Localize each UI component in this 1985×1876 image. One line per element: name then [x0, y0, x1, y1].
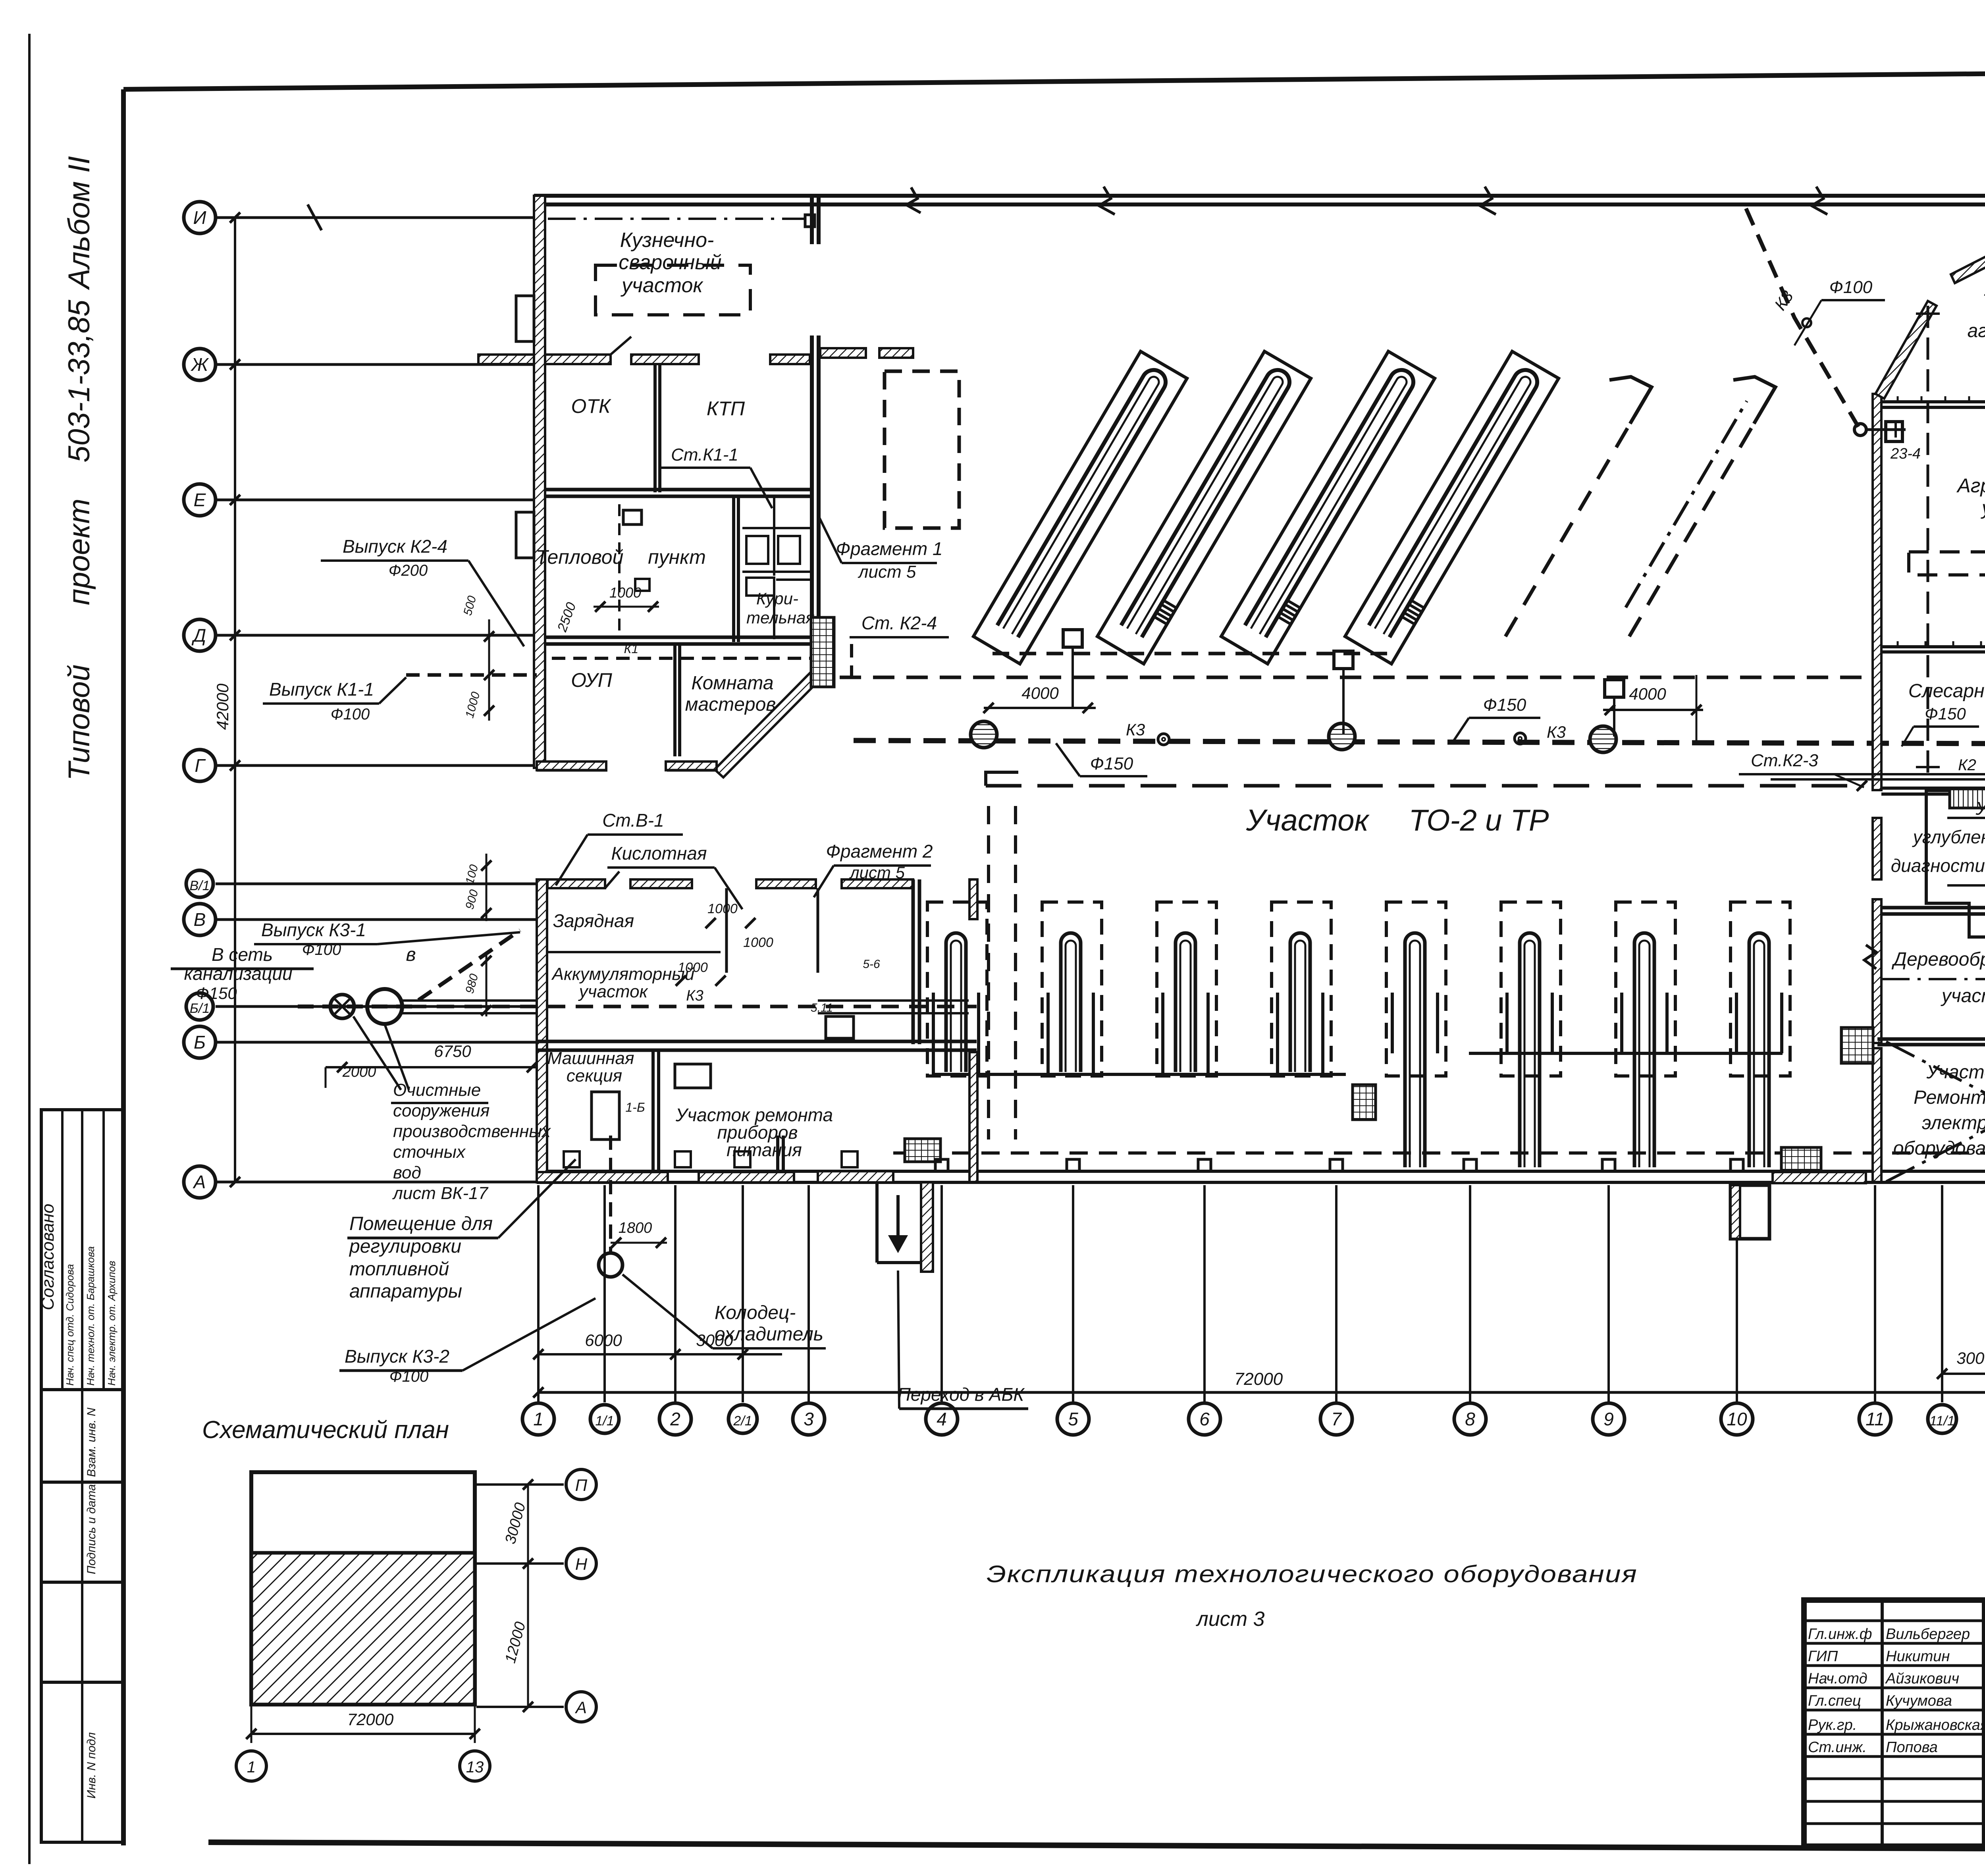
svg-text:1000: 1000	[743, 935, 773, 950]
svg-text:6: 6	[1199, 1409, 1210, 1429]
dashed parking strip 1	[0, 0, 2, 2]
K1 dashed pipe inside	[552, 657, 814, 660]
left block right wall	[810, 196, 814, 244]
wall axis Zh hatch seg 1	[545, 355, 611, 364]
top exterior wall	[534, 194, 1985, 198]
svg-text:Кури-: Кури-	[756, 589, 798, 608]
svg-text:72000: 72000	[1234, 1369, 1283, 1389]
svg-text:диагностики: диагностики	[1891, 855, 1985, 876]
svg-text:мастеров: мастеров	[685, 694, 776, 715]
svg-text:5-6: 5-6	[863, 958, 880, 971]
svg-text:лист 5: лист 5	[849, 863, 905, 882]
bottom wall hatch seg 1	[818, 1171, 893, 1182]
svg-text:регулировки: регулировки	[349, 1236, 461, 1257]
vertical dashed connector K2-4	[850, 644, 853, 677]
svg-text:Ст.инж.: Ст.инж.	[1808, 1739, 1867, 1756]
wall axis B lower	[537, 1040, 977, 1043]
grid line 4	[940, 1185, 943, 1402]
svg-text:Нач. электр. от. Архипов: Нач. электр. от. Архипов	[106, 1261, 118, 1386]
svg-text:К2: К2	[1958, 756, 1976, 774]
grid line 9	[1607, 1185, 1610, 1402]
derevo centerline	[1882, 978, 1985, 980]
svg-text:П: П	[575, 1476, 588, 1494]
K3 well 3	[1590, 726, 1616, 752]
svg-text:лист 3: лист 3	[1196, 1608, 1265, 1631]
diagonal ramp 3 stair	[1279, 601, 1300, 624]
pit bay dashed rect 4	[1272, 902, 1331, 1076]
svg-text:Ф100: Ф100	[302, 941, 341, 958]
bottom wall tick square at grid 6	[1198, 1159, 1211, 1171]
diagonal ramp 2	[1121, 370, 1289, 637]
axis line Б	[216, 1041, 537, 1044]
lower block left wall	[537, 879, 547, 1182]
grid bubble 5	[1057, 1403, 1089, 1435]
svg-text:Г: Г	[195, 755, 206, 776]
dim 72000 line	[538, 1391, 1985, 1394]
dashed equipment rect upper	[885, 371, 959, 528]
grid bubble 7	[1320, 1403, 1352, 1435]
grid line 1	[537, 1185, 540, 1402]
K3 main dashed pipe	[854, 740, 1985, 744]
svg-text:3000: 3000	[1956, 1349, 1985, 1367]
elektro cross 2	[1886, 1042, 1985, 1182]
axis bubble Б	[184, 1026, 216, 1058]
svg-text:ГИП: ГИП	[1808, 1648, 1838, 1665]
svg-text:Колодец-: Колодец-	[715, 1302, 796, 1323]
pit 6 solid surround	[1507, 993, 1552, 1053]
svg-text:А: А	[193, 1172, 206, 1192]
svg-text:Ремонта: Ремонта	[1914, 1087, 1985, 1108]
svg-text:2/1: 2/1	[733, 1413, 752, 1429]
axis line Е	[216, 499, 537, 501]
bottom wall hatch seg 2	[1773, 1172, 1866, 1183]
sanitary block inner walls	[773, 496, 775, 576]
svg-text:23-4: 23-4	[1890, 445, 1921, 462]
right stub below wall	[1731, 1185, 1769, 1239]
bottom wall tick square at grid 5	[1067, 1159, 1079, 1171]
svg-text:сооружения: сооружения	[393, 1101, 490, 1120]
grid line 10	[1736, 1185, 1738, 1402]
pit 3 solid surround	[1163, 993, 1208, 1074]
svg-text:Б/1: Б/1	[190, 1001, 210, 1016]
frame top edge	[123, 68, 1985, 89]
grid bubble 2	[659, 1403, 691, 1435]
svg-text:Агрегатный: Агрегатный	[1956, 474, 1985, 497]
svg-text:ТО-2 и ТР: ТО-2 и ТР	[1409, 804, 1549, 837]
schematic dim vline	[527, 1485, 529, 1707]
kolodec dashed riser	[609, 1136, 612, 1253]
svg-text:Ст.В-1: Ст.В-1	[602, 810, 664, 831]
grid line 2/1	[742, 1185, 744, 1402]
pit 2	[1061, 933, 1081, 1072]
dim 42000 vertical line	[234, 218, 236, 1182]
schematic bubble 1	[236, 1751, 266, 1781]
lower block equipment 2	[592, 1092, 619, 1139]
svg-text:4000: 4000	[1629, 684, 1666, 703]
dash-dot parking strip	[1626, 401, 1747, 607]
axis bubble Д	[184, 619, 216, 651]
pit bay dashed rect 3	[1157, 902, 1216, 1076]
frame bottom edge	[208, 1842, 1985, 1851]
margin row inv podl	[41, 1681, 123, 1684]
svg-text:Фрагмент 2: Фрагмент 2	[826, 841, 933, 862]
pit bay dashed rect 6	[1501, 902, 1561, 1076]
svg-text:3: 3	[804, 1409, 814, 1429]
svg-text:Выпуск К3-2: Выпуск К3-2	[345, 1346, 449, 1367]
derevo left wall	[1873, 899, 1881, 1043]
svg-text:Фрагмент 1: Фрагмент 1	[836, 538, 942, 559]
dim 6000-3000 left line	[538, 1353, 782, 1355]
pit 7	[1634, 933, 1654, 1167]
lower block equipment 3	[826, 1016, 854, 1038]
grid line 3	[807, 1185, 810, 1402]
svg-text:охладитель: охладитель	[715, 1324, 823, 1345]
grid bubble 11/1	[1928, 1405, 1956, 1433]
derevo elektro wall	[1877, 1037, 1985, 1041]
svg-text:Выпуск К3-1: Выпуск К3-1	[261, 920, 366, 940]
svg-text:Ст.К2-3: Ст.К2-3	[1751, 751, 1818, 770]
pit bay dashed rect 2	[1042, 902, 1102, 1076]
derevo top wall	[1877, 906, 1985, 910]
axis I dash-dot line	[548, 218, 805, 220]
svg-text:Зарядная: Зарядная	[553, 910, 634, 931]
svg-text:Ст.К1-1: Ст.К1-1	[671, 445, 738, 465]
pom regulirovki right wall	[651, 1050, 655, 1182]
axis bubble А	[184, 1166, 216, 1198]
derevo break left	[1864, 945, 1876, 969]
comb link line right group	[1469, 1052, 1783, 1055]
svg-text:аппаратуры: аппаратуры	[349, 1281, 462, 1302]
schematic bottom dim	[251, 1704, 252, 1743]
title block left part hlines	[1804, 1620, 1985, 1622]
svg-text:Машинная: Машинная	[547, 1049, 634, 1068]
grid line 6	[1203, 1185, 1206, 1402]
svg-text:Ст. К2-4: Ст. К2-4	[861, 613, 937, 633]
bottom wall tick square at grid 10	[1731, 1159, 1743, 1171]
axis bubble В/1	[186, 870, 213, 897]
svg-text:1/1: 1/1	[595, 1413, 614, 1429]
teplovoi dashed riser	[618, 504, 621, 635]
K3 inlet node	[1802, 318, 1811, 327]
diagonal ramp 4	[1369, 370, 1537, 637]
svg-text:Ф150: Ф150	[1483, 695, 1526, 715]
svg-text:сварочный: сварочный	[619, 251, 721, 274]
svg-text:Аккумуляторный: Аккумуляторный	[551, 964, 695, 984]
wall axis Zh hatch seg 3	[770, 355, 810, 364]
svg-text:Взам. инв. N: Взам. инв. N	[85, 1407, 98, 1477]
pit bay dashed rect 8	[1731, 902, 1790, 1076]
soglasovano row line	[41, 1388, 123, 1391]
axis line И	[216, 216, 537, 219]
elektro grate left	[1841, 1028, 1873, 1063]
wall axis E	[545, 488, 812, 492]
chamfer wall moiki	[1875, 301, 1937, 399]
svg-text:6750: 6750	[434, 1042, 471, 1060]
schematic hatch band	[251, 1553, 475, 1704]
grid bubble 4	[926, 1403, 958, 1435]
svg-text:Ф150: Ф150	[1925, 704, 1966, 723]
svg-text:Гл.спец: Гл.спец	[1808, 1693, 1861, 1709]
svg-text:13: 13	[466, 1758, 484, 1776]
wall axis Zh hatch seg 4 right of block	[820, 348, 866, 358]
svg-text:1: 1	[533, 1409, 543, 1429]
svg-text:Участок: Участок	[1926, 1062, 1985, 1083]
top wall break mark 1	[1099, 187, 1115, 214]
svg-text:5: 5	[1068, 1409, 1078, 1429]
perekhod stub walls	[921, 1182, 933, 1272]
svg-text:Экспликация технологического: Экспликация технологического оборудовани…	[987, 1561, 1638, 1587]
svg-text:К3: К3	[686, 987, 703, 1004]
svg-text:2000: 2000	[342, 1064, 376, 1080]
comb grate 1	[905, 1139, 940, 1162]
title block left part verticals	[1881, 1600, 1884, 1846]
svg-text:Попова: Попова	[1886, 1739, 1938, 1756]
K3 inlet elbow node	[1854, 424, 1866, 436]
wall axis G hatch seg 1	[537, 762, 606, 770]
zaryadnaya door arc	[605, 871, 619, 888]
svg-text:Вильбергер: Вильбергер	[1886, 1626, 1970, 1643]
lower block right wall	[969, 1052, 977, 1182]
margin row podpis	[41, 1581, 123, 1584]
grid bubble 2/1	[728, 1405, 757, 1433]
svg-text:в: в	[406, 944, 416, 965]
KTP right wall lower	[810, 498, 814, 647]
grid bubble 6	[1189, 1403, 1220, 1435]
grid bubble 8	[1454, 1403, 1486, 1435]
chamfer wall moiki upper	[1951, 231, 1985, 283]
diagonal ramp 1	[997, 370, 1166, 637]
diagonal ramp 4 stair	[1403, 601, 1424, 624]
pit 1	[946, 933, 966, 1072]
svg-text:42000: 42000	[213, 683, 232, 730]
svg-text:питания: питания	[727, 1139, 802, 1160]
svg-text:сточных: сточных	[393, 1142, 466, 1162]
axis line А	[216, 1181, 537, 1184]
pit bay dashed rect 1	[927, 902, 987, 1076]
comb link line left group	[979, 1073, 1346, 1076]
lower block equipment 1	[675, 1064, 711, 1088]
grid line 11	[1874, 1185, 1876, 1402]
svg-text:Гл.инж.ф: Гл.инж.ф	[1808, 1626, 1872, 1643]
diagnostika inner rect	[1947, 818, 1985, 885]
bottom wall tick square at grid 4	[935, 1159, 948, 1171]
svg-text:72000: 72000	[347, 1710, 394, 1729]
axis bubble Е	[184, 484, 216, 516]
elektro cross 1	[1886, 1042, 1985, 1182]
schematic rect	[251, 1472, 475, 1704]
top wall break mark 2	[1812, 187, 1827, 214]
grid bubble 11	[1859, 1403, 1891, 1435]
margin row vzam inv	[41, 1481, 123, 1484]
ochistnye tank circle	[367, 989, 402, 1024]
svg-text:11/1: 11/1	[1929, 1413, 1955, 1429]
pit 8	[1749, 933, 1769, 1167]
wall axis A lower hatch	[537, 1172, 668, 1182]
comb grate 3	[1781, 1147, 1821, 1170]
svg-text:К1: К1	[624, 642, 639, 656]
pit 3	[1176, 933, 1195, 1072]
ochistnye pump circle	[330, 995, 354, 1018]
svg-text:тельная: тельная	[746, 608, 815, 627]
pipe dashed line B	[840, 676, 1862, 679]
left wall pilaster 1	[516, 296, 534, 341]
grid bubble 1	[522, 1403, 554, 1435]
agregatny equipment dashed band	[1909, 552, 1985, 575]
svg-text:Тепловой: Тепловой	[536, 546, 624, 568]
mash sekcia right wall	[776, 1136, 779, 1182]
pit 7 solid surround	[1622, 993, 1667, 1053]
svg-text:Помещение для: Помещение для	[349, 1213, 493, 1234]
dim 3000-6000 right line	[1942, 1373, 1985, 1375]
svg-text:КТП: КТП	[707, 397, 745, 420]
svg-text:ОТК: ОТК	[571, 395, 611, 417]
svg-text:Переход в АБК: Переход в АБК	[898, 1384, 1025, 1405]
svg-text:агрегатов: агрегатов	[1968, 320, 1985, 341]
bottom wall tick square at grid 9	[1602, 1159, 1615, 1171]
svg-text:производственных: производственных	[393, 1122, 551, 1141]
svg-text:1000: 1000	[609, 584, 641, 601]
wall axis G hatch seg 2	[666, 762, 717, 770]
bottom wall tick square at grid 7	[1330, 1159, 1343, 1171]
grid bubble 9	[1593, 1403, 1625, 1435]
axis bubble Ж	[184, 349, 216, 380]
svg-text:9: 9	[1603, 1409, 1614, 1429]
svg-text:Ф200: Ф200	[389, 562, 428, 579]
svg-text:1: 1	[247, 1758, 256, 1776]
svg-text:4: 4	[937, 1409, 947, 1429]
K2 solid pipe	[1771, 773, 1985, 775]
zaryadnaya bench line	[547, 951, 721, 953]
svg-text:Ф150: Ф150	[1090, 754, 1133, 773]
svg-text:8: 8	[1465, 1409, 1475, 1429]
fragment2 dashed vline 1	[987, 806, 990, 1139]
svg-text:участок: участок	[1941, 985, 1985, 1006]
right block left wall lower	[1873, 818, 1881, 879]
svg-text:Ф100: Ф100	[389, 1368, 429, 1385]
perekhod arrow	[896, 1195, 900, 1247]
svg-text:Участок: Участок	[1983, 279, 1985, 300]
grid line 1/1	[603, 1185, 606, 1402]
ochistnye leader	[353, 1016, 401, 1090]
OTK KTP divider wall	[653, 364, 657, 492]
axis bubble Б/1	[186, 993, 213, 1020]
svg-text:Крыжановская: Крыжановская	[1886, 1717, 1985, 1733]
OUP Komnata divider	[673, 644, 676, 756]
svg-text:Кузнечно-: Кузнечно-	[620, 229, 714, 252]
top wall break mark 0	[906, 187, 921, 213]
svg-text:1000: 1000	[707, 901, 738, 916]
axis line Б/1	[216, 1005, 537, 1008]
pit 1 solid surround	[933, 993, 979, 1074]
pit 2 solid surround	[1048, 993, 1093, 1074]
kislotnaya right wall	[912, 879, 915, 1044]
axis I break tick	[308, 204, 322, 230]
svg-text:Ф150: Ф150	[196, 984, 237, 1003]
smoking room wall	[773, 580, 775, 639]
svg-text:В сеть: В сеть	[212, 944, 273, 965]
svg-text:Комната: Комната	[691, 673, 773, 694]
svg-text:7: 7	[1331, 1409, 1342, 1429]
agregatny dash vline 1	[1927, 306, 1929, 774]
K3 diagonal dashed inlet	[1746, 208, 1858, 427]
grid line 2	[674, 1185, 676, 1402]
dashed parking strip 2	[0, 0, 2, 2]
axis line Ж	[216, 363, 537, 366]
svg-text:А: А	[574, 1698, 587, 1717]
svg-text:К3: К3	[1547, 723, 1566, 741]
svg-text:Ф100: Ф100	[331, 706, 370, 723]
teplovoi right wall	[732, 496, 735, 642]
pit bay dashed rect 7	[1616, 902, 1675, 1076]
svg-text:Никитин: Никитин	[1886, 1648, 1950, 1665]
svg-text:И: И	[193, 207, 206, 228]
pit 5 solid surround	[1392, 993, 1438, 1053]
pipe long-dash K2-3 line	[986, 784, 1862, 788]
kuznechno dashed equipment rect	[595, 265, 750, 315]
K3 inlet horiz tail	[1866, 428, 1906, 431]
K3 well 2	[1329, 723, 1355, 750]
svg-text:вод: вод	[393, 1163, 421, 1182]
svg-text:лист 5: лист 5	[858, 562, 916, 582]
svg-text:1000: 1000	[678, 960, 708, 975]
svg-text:Альбом II: Альбом II	[62, 156, 96, 290]
svg-text:канализации: канализации	[184, 963, 292, 984]
axis line В	[216, 918, 537, 921]
grid bubble 1/1	[590, 1405, 619, 1433]
wall axis Zh hatch seg 2	[631, 355, 699, 364]
svg-text:1-Б: 1-Б	[625, 1100, 645, 1114]
acid room divider	[725, 888, 728, 973]
axis bubble И	[184, 202, 216, 233]
schematic axis N	[476, 1562, 564, 1565]
drain square 1	[1063, 630, 1082, 647]
svg-text:Участок: Участок	[1246, 804, 1370, 837]
svg-text:пункт: пункт	[648, 546, 706, 568]
left wall pilaster 2	[516, 512, 534, 558]
grid line 11/1	[1941, 1185, 1943, 1402]
svg-text:оборудования: оборудования	[1893, 1138, 1985, 1159]
svg-text:Слесарно-механический: Слесарно-механический	[1908, 681, 1985, 702]
lower block small squares	[564, 1151, 580, 1167]
svg-text:Выпуск К1-1: Выпуск К1-1	[269, 679, 374, 700]
v dashed diagonal	[377, 932, 520, 944]
soglasovano col line 2	[81, 1110, 83, 1390]
pit bay dashed rect 5	[1386, 902, 1446, 1076]
B1 outside pipe dashed	[298, 1005, 418, 1008]
svg-text:В/1: В/1	[189, 878, 210, 893]
svg-text:Кучумова: Кучумова	[1886, 1693, 1952, 1709]
svg-text:участок: участок	[578, 982, 649, 1001]
axis bubble Г	[184, 750, 216, 781]
svg-text:Выпуск К2-4: Выпуск К2-4	[343, 536, 447, 557]
diagonal ramp 2 stair	[1155, 601, 1176, 624]
svg-text:секция: секция	[567, 1066, 622, 1085]
svg-text:Ж: Ж	[191, 354, 209, 375]
grid bubble 3	[793, 1403, 825, 1435]
drain square 2	[1334, 651, 1353, 669]
comb grate 2	[1353, 1085, 1376, 1120]
svg-text:Нач. технол. от. Барашкова: Нач. технол. от. Барашкова	[85, 1246, 96, 1386]
axis line Д	[216, 634, 537, 637]
grid line 8	[1469, 1185, 1471, 1402]
svg-text:Кислотная: Кислотная	[611, 843, 707, 864]
K3 well 1	[971, 721, 997, 748]
bottom wall tick square at grid 8	[1464, 1159, 1476, 1171]
title block outer box	[1804, 1600, 1985, 1846]
svg-text:Б: Б	[194, 1032, 206, 1053]
svg-text:Типовой: Типовой	[62, 665, 96, 781]
svg-text:Схематический план: Схематический план	[202, 1416, 449, 1444]
